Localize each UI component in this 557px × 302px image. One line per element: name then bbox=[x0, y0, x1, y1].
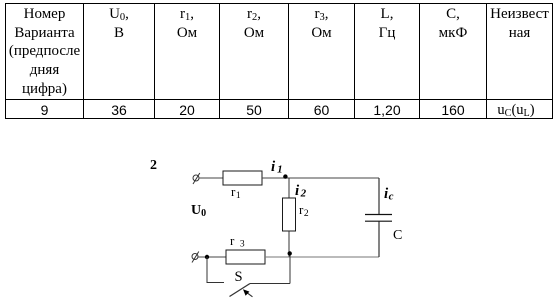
capacitor C bbox=[365, 178, 392, 257]
wire r1 to node A bbox=[262, 177, 289, 179]
wire node A to capacitor top bbox=[289, 177, 379, 179]
switch S bbox=[207, 256, 290, 297]
variants table bbox=[5, 3, 553, 119]
svg-text:i2: i2 bbox=[295, 183, 307, 200]
switch actuation arrow bbox=[243, 289, 253, 297]
wire r2 bottom to node B bbox=[288, 231, 290, 257]
wire terminal to r1 bbox=[199, 177, 223, 179]
wire node A down to r2 bbox=[288, 178, 290, 198]
terminal top-left bbox=[193, 173, 200, 184]
wire r3 to node B and capacitor bottom bbox=[265, 256, 379, 258]
node B junction dot bbox=[288, 251, 292, 255]
svg-text:2: 2 bbox=[150, 158, 157, 173]
resistor r3 bbox=[226, 250, 265, 264]
svg-text:U0: U0 bbox=[191, 203, 206, 219]
node C junction dot bbox=[205, 255, 209, 259]
svg-text:r1: r1 bbox=[231, 184, 241, 201]
svg-text:C: C bbox=[393, 228, 402, 243]
resistor r1 bbox=[223, 171, 262, 185]
node A junction dot bbox=[283, 174, 287, 178]
svg-text:S: S bbox=[235, 269, 243, 285]
terminal bottom-left bbox=[192, 252, 199, 263]
svg-text:ic: ic bbox=[384, 186, 394, 203]
svg-text:r2: r2 bbox=[299, 202, 309, 219]
svg-text:i1: i1 bbox=[271, 159, 283, 176]
svg-text:r3: r3 bbox=[230, 233, 245, 250]
resistor r2 bbox=[283, 198, 296, 231]
wire terminal to node C bbox=[198, 256, 226, 258]
